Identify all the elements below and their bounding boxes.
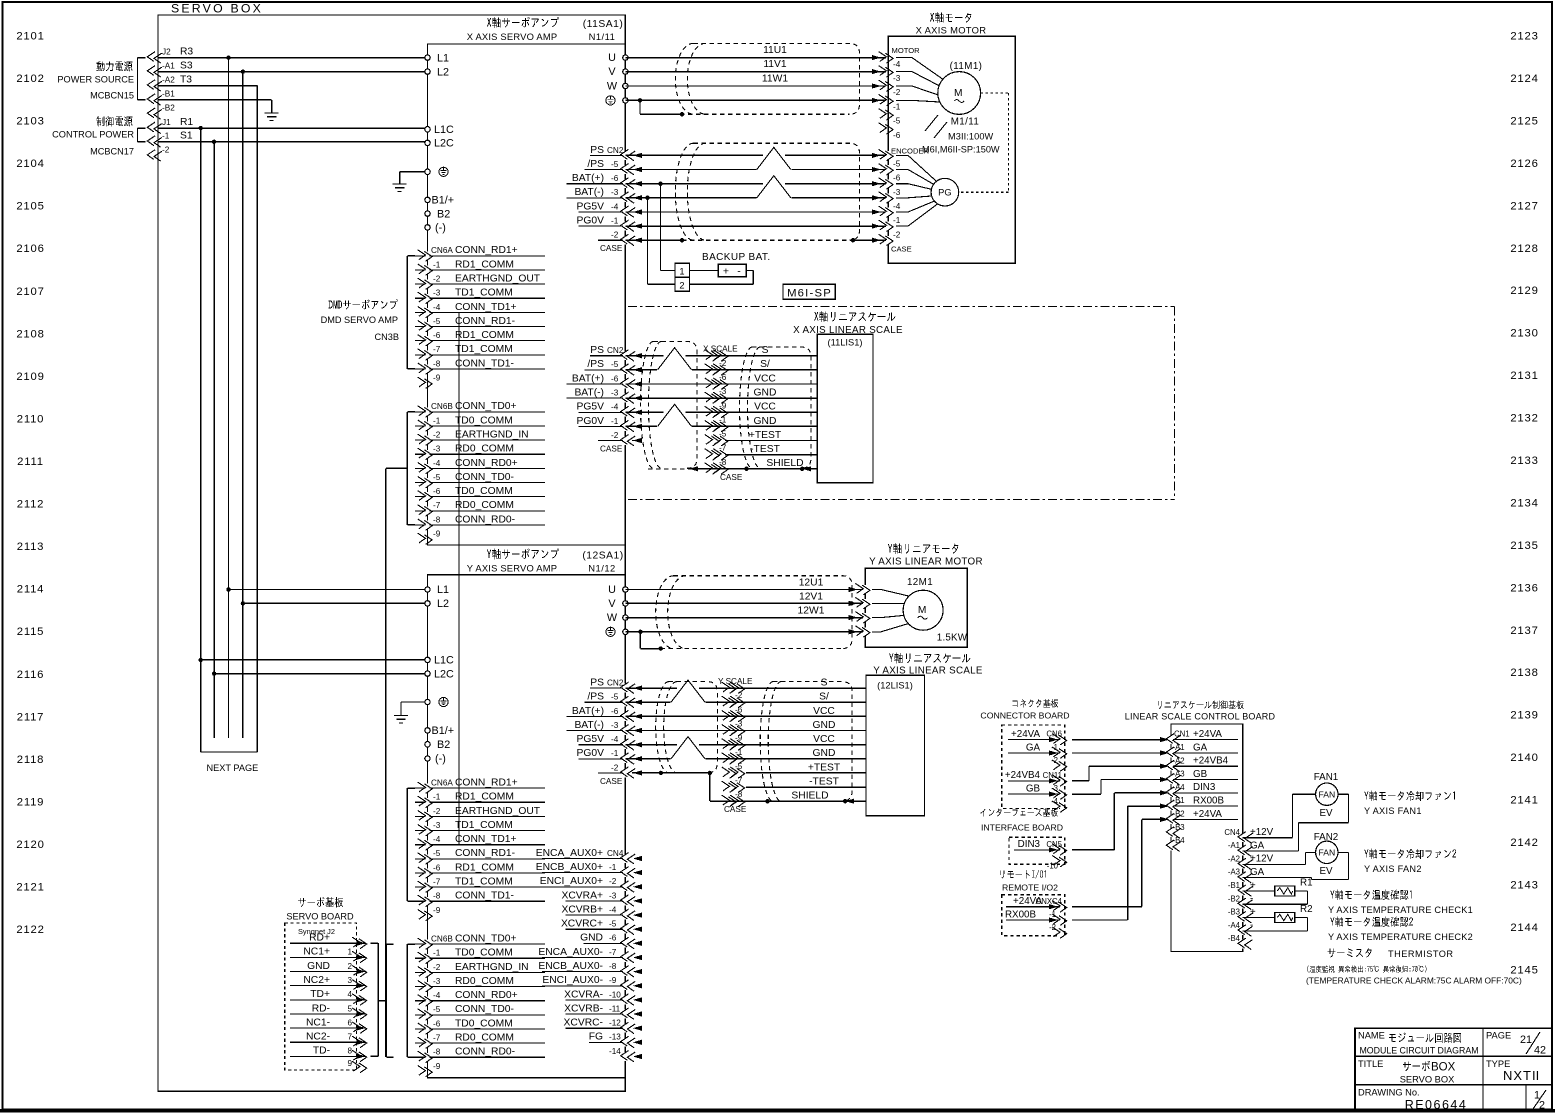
Y axis temperature check1 label xyxy=(1328,890,1473,915)
svg-text:CONN_TD0+: CONN_TD0+ xyxy=(455,401,517,412)
svg-text:L1C: L1C xyxy=(434,124,454,136)
svg-text:-5: -5 xyxy=(611,693,619,702)
svg-text:EARTHGND_OUT: EARTHGND_OUT xyxy=(455,806,541,817)
X amp pin L2C xyxy=(425,138,454,150)
svg-text:-B2: -B2 xyxy=(162,104,175,113)
svg-text:2115: 2115 xyxy=(17,626,45,638)
svg-text:THERMISTOR: THERMISTOR xyxy=(1388,949,1454,959)
svg-text:-4: -4 xyxy=(611,202,619,211)
svg-text:ENCB_AUX0+: ENCB_AUX0+ xyxy=(536,862,603,873)
svg-text:-9: -9 xyxy=(735,734,743,743)
svg-text:(12LIS1): (12LIS1) xyxy=(877,681,913,691)
Y CN6B group bracket xyxy=(378,944,393,1057)
svg-text:EARTHGND_IN: EARTHGND_IN xyxy=(455,962,529,973)
svg-text:2101: 2101 xyxy=(16,31,44,43)
svg-text:(11M1): (11M1) xyxy=(950,61,983,72)
svg-text:NXT: NXT xyxy=(1503,1068,1532,1083)
svg-text:-3: -3 xyxy=(433,821,441,830)
Y amp connector CN4 xyxy=(536,848,642,1062)
svg-text:DIN3: DIN3 xyxy=(1018,839,1041,850)
svg-text:+24VB4: +24VB4 xyxy=(1005,770,1041,781)
svg-text:REMOTE I/O2: REMOTE I/O2 xyxy=(1002,883,1058,893)
encoder wires CN2 to motor xyxy=(625,147,888,226)
bus verticals down to Y amp and next page xyxy=(201,58,243,738)
svg-text:2116: 2116 xyxy=(17,669,45,681)
svg-text:ENCA_AUX0+: ENCA_AUX0+ xyxy=(536,848,603,859)
svg-text:-5: -5 xyxy=(735,762,743,771)
svg-text:RD0_COMM: RD0_COMM xyxy=(455,1033,514,1044)
svg-text:S/: S/ xyxy=(760,359,770,370)
svg-text:RD0_COMM: RD0_COMM xyxy=(455,500,514,511)
linear scale control board labels xyxy=(1125,700,1276,721)
svg-text:-B1: -B1 xyxy=(1173,796,1185,805)
Y amp pin L1 xyxy=(425,584,449,596)
svg-text:+24VA: +24VA xyxy=(1011,729,1040,740)
svg-text:21: 21 xyxy=(1520,1034,1532,1046)
svg-text:(11LIS1): (11LIS1) xyxy=(828,338,863,348)
svg-text:+24VB4: +24VB4 xyxy=(1193,756,1229,767)
svg-text:-: - xyxy=(1250,920,1253,931)
svg-text:2119: 2119 xyxy=(17,796,45,808)
svg-text:MOTOR: MOTOR xyxy=(892,46,921,55)
svg-text:-7: -7 xyxy=(433,1034,441,1043)
X motor power cable xyxy=(664,43,860,114)
svg-text:CN2: CN2 xyxy=(607,679,624,688)
svg-text:-1: -1 xyxy=(1049,910,1056,919)
svg-text:(TEMPERATURE CHECK ALARM:75C A: (TEMPERATURE CHECK ALARM:75C ALARM OFF:7… xyxy=(1306,976,1522,986)
svg-text:-: - xyxy=(737,265,741,277)
X scale case shield path xyxy=(632,438,811,471)
svg-text:PG0V: PG0V xyxy=(577,416,605,427)
svg-text:-6: -6 xyxy=(611,174,619,183)
svg-text:-1: -1 xyxy=(1051,743,1058,752)
svg-text:VCC: VCC xyxy=(813,706,835,717)
svg-text:-13: -13 xyxy=(609,1033,621,1042)
svg-text:CN3B: CN3B xyxy=(374,332,399,342)
svg-text:2134: 2134 xyxy=(1510,498,1538,510)
wire GA to board xyxy=(1072,752,1167,754)
svg-text:-4: -4 xyxy=(433,303,441,312)
svg-text:8: 8 xyxy=(347,1047,352,1056)
svg-text:CONN_TD1-: CONN_TD1- xyxy=(455,358,514,369)
svg-text:(-): (-) xyxy=(435,753,446,765)
svg-text:2108: 2108 xyxy=(16,328,44,340)
Y axis linear scale labels xyxy=(873,653,983,677)
svg-text:ENCA_AUX0-: ENCA_AUX0- xyxy=(538,947,603,958)
title block xyxy=(1355,1028,1552,1112)
svg-text:-5: -5 xyxy=(893,160,901,169)
svg-text:GA: GA xyxy=(1250,867,1265,878)
svg-text:-1: -1 xyxy=(611,749,619,758)
wire remote +24VA staircase xyxy=(1072,819,1167,906)
svg-text:W: W xyxy=(607,612,618,624)
svg-text:Y SCALE: Y SCALE xyxy=(718,677,753,686)
svg-text:CN4: CN4 xyxy=(607,849,624,858)
svg-text:-4: -4 xyxy=(893,60,901,69)
svg-text:-3: -3 xyxy=(893,74,901,83)
svg-text:XCVRB+: XCVRB+ xyxy=(562,905,604,916)
svg-text:TITLE: TITLE xyxy=(1358,1059,1383,1069)
X amp encoder connector CN2 xyxy=(567,145,642,253)
M6I-SP option label box xyxy=(783,284,835,299)
Y amp pin (-) xyxy=(425,753,446,765)
control power label xyxy=(52,116,134,156)
svg-text:2: 2 xyxy=(679,280,684,290)
svg-text:CONN_RD1+: CONN_RD1+ xyxy=(455,245,518,256)
thermistor R2 xyxy=(1243,904,1313,931)
svg-text:BAT(-): BAT(-) xyxy=(574,187,604,198)
svg-text:-6: -6 xyxy=(893,131,901,140)
svg-text:2109: 2109 xyxy=(16,371,44,383)
svg-text:CN2: CN2 xyxy=(607,146,624,155)
svg-text:CONN_RD1-: CONN_RD1- xyxy=(455,848,515,859)
svg-text:NC2+: NC2+ xyxy=(303,975,330,986)
svg-text:EV: EV xyxy=(1319,808,1333,819)
svg-text:GND: GND xyxy=(813,748,836,759)
svg-text:2102: 2102 xyxy=(16,73,44,85)
svg-text:12U1: 12U1 xyxy=(799,578,824,589)
motor connector pin labels xyxy=(879,46,921,140)
svg-text:RE06644: RE06644 xyxy=(1405,1098,1468,1112)
svg-text:FAN: FAN xyxy=(1318,789,1335,799)
svg-text:-A1: -A1 xyxy=(1173,743,1185,752)
svg-text:BACKUP BAT.: BACKUP BAT. xyxy=(702,252,771,263)
svg-text:-4: -4 xyxy=(893,202,901,211)
svg-text:-11: -11 xyxy=(609,1004,621,1013)
svg-text:GND: GND xyxy=(754,416,777,427)
svg-text:TD-: TD- xyxy=(313,1046,330,1057)
svg-text:-A2: -A2 xyxy=(1228,854,1240,863)
svg-text:2112: 2112 xyxy=(17,499,45,511)
power source label xyxy=(57,61,134,100)
svg-text:-A3: -A3 xyxy=(1173,770,1185,779)
svg-text:TD0_COMM: TD0_COMM xyxy=(455,948,513,959)
svg-text:CASE: CASE xyxy=(600,777,623,786)
svg-text:-1: -1 xyxy=(433,949,441,958)
svg-text:-TEST: -TEST xyxy=(750,444,780,455)
svg-text:CN6: CN6 xyxy=(1046,730,1062,739)
motor M1/11 11M1 circle xyxy=(896,58,1000,155)
svg-text:RD0_COMM: RD0_COMM xyxy=(455,976,514,987)
svg-text:U: U xyxy=(608,52,616,64)
svg-text:S1: S1 xyxy=(180,131,193,142)
svg-text:-2: -2 xyxy=(433,807,441,816)
connector board labels xyxy=(980,699,1069,721)
SERVO BOX enclosure xyxy=(158,2,625,1092)
svg-text:2114: 2114 xyxy=(17,584,45,596)
svg-text:2133: 2133 xyxy=(1510,455,1538,467)
svg-text:L2: L2 xyxy=(437,598,449,610)
svg-text:-B2: -B2 xyxy=(1228,894,1240,903)
svg-text:ENCB_AUX0-: ENCB_AUX0- xyxy=(538,961,603,972)
svg-text:-B2: -B2 xyxy=(1173,810,1185,819)
svg-text:-3: -3 xyxy=(611,389,619,398)
svg-text:-8: -8 xyxy=(433,1048,441,1057)
svg-text:+24VA: +24VA xyxy=(1193,809,1222,820)
svg-text:B2: B2 xyxy=(437,739,450,751)
svg-text:11U1: 11U1 xyxy=(763,45,787,56)
svg-text:-7: -7 xyxy=(735,776,743,785)
servo board Synqnet J2 connector box xyxy=(285,923,367,1073)
svg-text:M: M xyxy=(918,605,927,616)
svg-text:-A1: -A1 xyxy=(1228,841,1240,850)
svg-text:42: 42 xyxy=(1534,1045,1546,1057)
svg-text:CASE: CASE xyxy=(891,244,912,253)
svg-text:/PS: /PS xyxy=(587,692,604,703)
svg-text:BAT(+): BAT(+) xyxy=(572,373,604,384)
svg-text:-9: -9 xyxy=(719,401,727,410)
svg-text:M6I-SP: M6I-SP xyxy=(787,287,832,299)
svg-text:+TEST: +TEST xyxy=(808,762,841,773)
board CN4 fan connector rows xyxy=(1224,827,1273,949)
wire 12V1 xyxy=(625,591,870,608)
svg-text:CN2: CN2 xyxy=(607,346,624,355)
wire 12W1 xyxy=(625,606,870,623)
svg-text:INTERFACE BOARD: INTERFACE BOARD xyxy=(981,823,1063,833)
svg-text:PG5V: PG5V xyxy=(577,402,605,413)
svg-text:-6: -6 xyxy=(611,707,619,716)
svg-text:2120: 2120 xyxy=(16,839,44,851)
svg-text:PG0V: PG0V xyxy=(577,748,605,759)
svg-text:2132: 2132 xyxy=(1510,413,1538,425)
motor encoder PG circle xyxy=(872,147,959,254)
svg-text:+12V: +12V xyxy=(1250,827,1274,838)
svg-text:1: 1 xyxy=(679,266,684,276)
svg-text:-2: -2 xyxy=(433,963,441,972)
svg-text:NEXT PAGE: NEXT PAGE xyxy=(207,763,259,773)
svg-text:2140: 2140 xyxy=(1510,752,1538,764)
svg-text:GND: GND xyxy=(813,720,836,731)
svg-text:2143: 2143 xyxy=(1510,880,1538,892)
svg-text:CONN_TD1+: CONN_TD1+ xyxy=(455,834,517,845)
svg-text:T3: T3 xyxy=(180,75,192,86)
svg-text:S: S xyxy=(821,678,828,689)
wire S1 to X amp L2C xyxy=(158,140,428,144)
svg-text:J2: J2 xyxy=(162,47,171,56)
svg-text:-4: -4 xyxy=(433,991,441,1000)
Y axis linear motor box xyxy=(865,568,967,647)
encoder case shield wire xyxy=(625,238,888,242)
svg-text:-10: -10 xyxy=(609,990,621,999)
svg-text:CN5: CN5 xyxy=(1046,840,1062,849)
svg-text:-3: -3 xyxy=(719,387,727,396)
svg-text:-5: -5 xyxy=(609,920,617,929)
svg-text:-B1: -B1 xyxy=(162,90,175,99)
wire 12U1 xyxy=(625,578,870,595)
svg-text:SHIELD: SHIELD xyxy=(766,458,803,469)
svg-text:+: + xyxy=(1250,907,1256,918)
svg-text:-3: -3 xyxy=(893,188,901,197)
svg-text:2106: 2106 xyxy=(16,243,44,255)
svg-text:BAT(+): BAT(+) xyxy=(572,173,604,184)
Y earth wire to motor xyxy=(625,626,870,651)
svg-text:-6: -6 xyxy=(433,331,441,340)
wire to Y amp L1C xyxy=(199,658,428,662)
svg-text:-2: -2 xyxy=(609,877,617,886)
svg-text:CONNECTOR BOARD: CONNECTOR BOARD xyxy=(980,711,1069,721)
svg-text:CASE: CASE xyxy=(600,244,623,253)
interconnect vertical CN6B-4 to Y amp CN6B bracket xyxy=(386,468,408,1057)
svg-text:RD-: RD- xyxy=(312,1003,330,1014)
svg-text:+12V: +12V xyxy=(1250,854,1274,865)
svg-text:-6: -6 xyxy=(433,863,441,872)
X scale wires and mid connector xyxy=(625,345,817,482)
Y amp pin L2C xyxy=(425,668,454,680)
svg-text:1: 1 xyxy=(347,948,352,957)
Y amp pin B1/+ xyxy=(425,725,454,737)
svg-text:EV: EV xyxy=(1319,866,1333,877)
svg-text:2122: 2122 xyxy=(16,924,44,936)
svg-text:B1/+: B1/+ xyxy=(432,725,455,737)
svg-text:11W1: 11W1 xyxy=(762,74,788,85)
backup battery xyxy=(689,252,770,284)
svg-text:X AXIS MOTOR: X AXIS MOTOR xyxy=(916,25,987,36)
svg-text:CONN_RD1+: CONN_RD1+ xyxy=(455,778,518,789)
svg-text:CONN_RD0+: CONN_RD0+ xyxy=(455,458,518,469)
svg-text:R1: R1 xyxy=(180,117,193,128)
svg-text:-1: -1 xyxy=(433,416,441,425)
svg-text:M3II:100W: M3II:100W xyxy=(948,132,994,142)
svg-text:GND: GND xyxy=(754,388,777,399)
svg-text:CONN_RD0-: CONN_RD0- xyxy=(455,514,515,525)
svg-text:-5: -5 xyxy=(433,317,441,326)
svg-text:RD1_COMM: RD1_COMM xyxy=(455,792,514,803)
svg-text:-B3: -B3 xyxy=(1228,908,1240,917)
svg-text:-1: -1 xyxy=(433,260,441,269)
svg-text:CN6A: CN6A xyxy=(431,779,453,788)
svg-text:-9: -9 xyxy=(433,374,441,383)
svg-text:RD0_COMM: RD0_COMM xyxy=(455,444,514,455)
svg-text:SERVO BOX: SERVO BOX xyxy=(171,2,263,16)
Y amp pin L1C xyxy=(425,655,454,667)
svg-text:CN6A: CN6A xyxy=(431,246,453,255)
svg-text:-5: -5 xyxy=(719,430,727,439)
svg-text:GB: GB xyxy=(1026,784,1041,795)
X scale cable amp side xyxy=(640,342,697,469)
Y scale cable scale side xyxy=(760,682,852,802)
svg-text:-8: -8 xyxy=(433,515,441,524)
svg-text:XCVRC-: XCVRC- xyxy=(564,1018,603,1029)
svg-text:PAGE: PAGE xyxy=(1486,1031,1511,1041)
Y amp pin B2 xyxy=(425,739,450,751)
svg-text:2137: 2137 xyxy=(1510,625,1538,637)
svg-text:RX00B: RX00B xyxy=(1005,909,1037,920)
wire 11W1 xyxy=(625,74,893,92)
DMD servo amp label xyxy=(321,299,399,342)
svg-text:BOX: BOX xyxy=(1431,1062,1456,1074)
svg-text:-2: -2 xyxy=(893,230,901,239)
svg-text:3: 3 xyxy=(347,976,352,985)
svg-text:-2: -2 xyxy=(735,691,743,700)
svg-text:TD1_COMM: TD1_COMM xyxy=(455,820,513,831)
svg-text:-2: -2 xyxy=(893,88,901,97)
svg-text:2105: 2105 xyxy=(16,201,44,213)
svg-text:-6: -6 xyxy=(611,374,619,383)
svg-text:-A4: -A4 xyxy=(1173,783,1186,792)
wire +24VB4 staircase xyxy=(1072,766,1167,781)
connector board box CN6/CN11 xyxy=(1002,725,1067,812)
thermistor R1 xyxy=(1243,877,1313,904)
svg-text:2135: 2135 xyxy=(1510,540,1538,552)
svg-text:-1: -1 xyxy=(433,793,441,802)
svg-text:CNXC4: CNXC4 xyxy=(1036,897,1063,906)
wire 11V1 xyxy=(625,59,893,77)
svg-text:CONN_TD1+: CONN_TD1+ xyxy=(455,302,517,313)
svg-text:TD+: TD+ xyxy=(310,989,330,1000)
svg-text:XCVRA+: XCVRA+ xyxy=(562,890,604,901)
svg-text:11V1: 11V1 xyxy=(763,59,787,70)
Y linear scale 12LIS1 box xyxy=(866,675,925,816)
svg-text:-7: -7 xyxy=(609,948,617,957)
svg-text:PG5V: PG5V xyxy=(577,201,605,212)
svg-text:SERVO BOARD: SERVO BOARD xyxy=(286,912,354,922)
wire to Y amp L2 xyxy=(241,601,428,605)
svg-text:-9: -9 xyxy=(433,906,441,915)
svg-text:-2: -2 xyxy=(719,359,727,368)
svg-text:RX00B: RX00B xyxy=(1193,796,1225,807)
svg-text:-TEST: -TEST xyxy=(809,777,839,788)
svg-text:-B3: -B3 xyxy=(1173,823,1185,832)
interface board box CN5 xyxy=(1009,837,1067,870)
svg-text:-6: -6 xyxy=(719,373,727,382)
svg-text:-7: -7 xyxy=(719,444,727,453)
svg-text:-3: -3 xyxy=(433,977,441,986)
svg-text:XCVRB-: XCVRB- xyxy=(564,1003,603,1014)
wire B1 to chassis ground xyxy=(158,100,279,121)
svg-text:2130: 2130 xyxy=(1510,328,1538,340)
wire RX00B staircase xyxy=(1072,806,1167,920)
svg-text:-A3: -A3 xyxy=(1228,868,1240,877)
svg-text:-A2: -A2 xyxy=(1173,756,1185,765)
svg-text:MCBCN17: MCBCN17 xyxy=(90,147,134,157)
X amp pin B1/+ xyxy=(425,195,454,207)
svg-text:-5: -5 xyxy=(433,473,441,482)
svg-text:CONN_TD0-: CONN_TD0- xyxy=(455,472,514,483)
svg-text:-6: -6 xyxy=(893,174,901,183)
svg-text:L1: L1 xyxy=(437,584,449,596)
wire R3 to X amp L1 xyxy=(158,55,428,59)
Y axis fan1 label xyxy=(1364,791,1455,816)
svg-text:S: S xyxy=(762,345,769,356)
X encoder cable xyxy=(675,143,859,240)
X axis motor labels xyxy=(916,12,987,35)
svg-text:2136: 2136 xyxy=(1510,582,1538,594)
servo board group bracket xyxy=(371,943,379,1056)
right grid coordinate numbers 2123-2145 xyxy=(1510,31,1538,977)
thermistor note xyxy=(1306,948,1522,985)
svg-text:ENCI_AUX0-: ENCI_AUX0- xyxy=(542,975,603,986)
svg-text:-3: -3 xyxy=(611,188,619,197)
svg-text:2111: 2111 xyxy=(17,456,44,468)
svg-text:NC1-: NC1- xyxy=(306,1017,330,1028)
svg-text:-4: -4 xyxy=(611,735,619,744)
svg-text:-8: -8 xyxy=(719,458,727,467)
svg-text:VCC: VCC xyxy=(754,373,776,384)
svg-text:-3: -3 xyxy=(611,721,619,730)
svg-text:SHIELD: SHIELD xyxy=(791,791,828,802)
svg-text:-9: -9 xyxy=(609,976,617,985)
svg-text:Y AXIS SERVO AMP: Y AXIS SERVO AMP xyxy=(467,563,557,574)
svg-text:-1: -1 xyxy=(611,417,619,426)
svg-text:2118: 2118 xyxy=(17,754,45,766)
svg-text:PG0V: PG0V xyxy=(577,216,605,227)
svg-text:CONN_TD1-: CONN_TD1- xyxy=(455,891,514,902)
svg-text:-5: -5 xyxy=(433,849,441,858)
X amp pin L1 xyxy=(425,52,449,64)
svg-text:-1: -1 xyxy=(735,748,743,757)
svg-text:/PS: /PS xyxy=(587,159,604,170)
svg-text:2104: 2104 xyxy=(16,158,44,170)
